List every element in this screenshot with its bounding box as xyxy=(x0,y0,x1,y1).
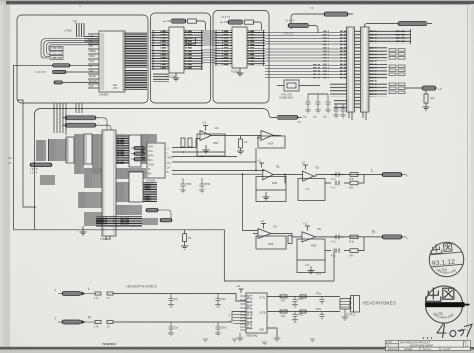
cap CO4 xyxy=(320,312,325,320)
resistor RL1 xyxy=(95,292,101,295)
resistor RR2 xyxy=(107,321,113,324)
wire A1 to A2 xyxy=(216,135,261,137)
pills small right xyxy=(146,209,158,212)
labels above xyxy=(221,17,231,19)
IC U7 xyxy=(84,134,92,164)
oscillator module boxes xyxy=(50,47,63,51)
ground G11 xyxy=(274,338,281,341)
pill P16 L input xyxy=(62,292,81,296)
TOP label xyxy=(73,22,78,24)
headphone jack J1 xyxy=(351,296,360,313)
U11 label xyxy=(146,181,156,183)
resistor RL2 xyxy=(107,292,113,295)
box R-array2 xyxy=(245,20,254,24)
feedback box A5 xyxy=(256,236,286,249)
left scanner band xyxy=(0,0,10,353)
rail down to R channel xyxy=(243,174,259,230)
+12 supply A6 xyxy=(305,226,310,231)
XTAL OSC box X1 xyxy=(284,80,299,91)
U1 left pin stubs xyxy=(88,34,99,88)
tick labels xyxy=(285,21,295,23)
IC U6 xyxy=(66,137,74,163)
comb band mid xyxy=(116,168,146,179)
bus wires box1 to cluster xyxy=(54,103,66,135)
U2 right comb xyxy=(184,30,203,47)
bottom right pin down xyxy=(267,328,277,338)
IC U8 gate array xyxy=(102,130,116,236)
resistor RO1 xyxy=(280,295,287,298)
left margin tiny labels xyxy=(8,158,12,165)
stamp 1 (date stamp 93.1.12) xyxy=(428,241,465,278)
opamp A6 xyxy=(302,232,316,242)
+12 supply U12 xyxy=(239,288,244,294)
U4 left combs xyxy=(330,82,347,97)
+12 supply A4 xyxy=(303,165,308,170)
R label xyxy=(372,230,376,235)
resistor RO3 xyxy=(300,295,306,298)
pill P17 R input xyxy=(62,320,81,324)
comb right of U6 xyxy=(74,134,84,174)
IC U4 xyxy=(347,27,355,112)
R out resistor xyxy=(350,235,358,239)
U12 right wires xyxy=(267,296,340,311)
U12 label xyxy=(246,335,258,338)
feedback box A6 xyxy=(297,239,325,273)
HEADPHONES right label xyxy=(363,300,397,305)
feedback box A1 xyxy=(197,134,225,156)
pill P15 R out xyxy=(382,235,402,239)
+12 supply A1 xyxy=(203,126,208,131)
pill P7 xyxy=(288,24,309,28)
U3 right comb xyxy=(247,30,265,46)
clock loop wires nest xyxy=(41,39,99,59)
pill P13 xyxy=(30,163,52,167)
feedback box A4 xyxy=(298,179,325,201)
ground G4 xyxy=(80,226,87,235)
resistor RO2 xyxy=(280,310,287,313)
U1 right pin comb xyxy=(125,32,147,68)
connector pill P2 xyxy=(53,70,67,73)
input resistors A1 xyxy=(181,138,185,147)
ground G1 xyxy=(173,73,180,81)
+12 supply A5 xyxy=(261,224,266,229)
pill P9 out xyxy=(422,86,436,90)
pill serial P11 xyxy=(65,116,96,120)
U2 left comb xyxy=(152,30,170,47)
tiny label col xyxy=(30,169,38,175)
clock bus wires to top xyxy=(77,23,85,37)
wire bundle box3 to U4 band3 xyxy=(265,66,347,78)
dots above title block xyxy=(423,337,432,338)
wire A4 fb drop xyxy=(284,174,286,183)
tick labels 1357 xyxy=(35,72,47,74)
feedback box A3 xyxy=(256,177,286,202)
IC U12 headphone amp xyxy=(246,293,267,333)
wire R row xyxy=(113,312,246,323)
ground G5 xyxy=(181,246,188,249)
wire long y108.6 xyxy=(35,109,278,230)
labels row xyxy=(283,34,294,36)
resistor R-L8 xyxy=(424,94,428,103)
jack ground xyxy=(342,309,349,320)
resistor RR1 xyxy=(95,321,101,324)
caps cluster C10-C12 xyxy=(306,94,311,110)
module box 1 (CPU) xyxy=(17,15,148,103)
+12 supply A3 xyxy=(259,163,264,168)
U5 right top comb xyxy=(369,29,411,44)
U8 left comb low xyxy=(84,168,102,188)
U2 label xyxy=(167,77,177,79)
ground G6 xyxy=(168,305,174,308)
rail resistor xyxy=(183,234,187,242)
U12 left pins xyxy=(240,296,246,330)
xtal caps small xyxy=(187,38,196,44)
U5 right comb2 xyxy=(369,47,387,61)
redaction bar xyxy=(426,302,465,307)
second row from box A4 xyxy=(325,175,364,184)
wire xtal to U4 xyxy=(277,85,320,87)
left small comb xyxy=(40,175,55,185)
jack switch contacts xyxy=(340,299,350,310)
connector pill P3 xyxy=(54,81,63,84)
U1 label xyxy=(99,85,118,97)
label 7.4 xyxy=(310,8,314,10)
second row from box A6 xyxy=(325,237,364,251)
caps C-row below U4 xyxy=(334,104,339,115)
L out resistor xyxy=(350,173,358,177)
IC U5 xyxy=(361,27,370,112)
jack label xyxy=(346,315,356,317)
cap CL1 xyxy=(169,294,174,305)
wire bundle box2 to box3 xyxy=(202,31,215,45)
feedback box A2 xyxy=(258,136,285,148)
ground under R82k xyxy=(237,151,244,154)
pill serial P12 xyxy=(65,123,96,127)
pill P4 top xyxy=(171,19,186,23)
resistor RO4 xyxy=(300,310,306,313)
pill P8 top right xyxy=(398,22,427,26)
cap CL2 xyxy=(216,294,221,305)
ground in box A6 xyxy=(308,267,315,274)
IC U10 xyxy=(129,172,143,202)
wire bundle box3 to U4 band1 xyxy=(265,33,347,45)
U8 right combs xyxy=(116,134,129,164)
wire A2 fb down to A3 xyxy=(255,148,257,170)
cap CO2 xyxy=(293,312,298,320)
pill P14 L out xyxy=(382,173,402,177)
pill P5 top xyxy=(228,20,243,24)
right margin fold line xyxy=(467,5,469,346)
cap CO3 xyxy=(320,296,325,304)
opamp A3 xyxy=(263,169,273,180)
L label xyxy=(371,168,374,173)
title block xyxy=(386,341,471,352)
stamp2 kanji SHUTSU-ZU (vector) xyxy=(426,288,454,302)
U8 bottom stub xyxy=(106,236,110,240)
opamp A5 xyxy=(258,229,271,239)
top dark band xyxy=(0,0,474,1)
U11 left pills xyxy=(134,147,145,150)
ground G9 xyxy=(215,333,221,336)
U3 left comb xyxy=(215,30,233,46)
L.7MHz label xyxy=(64,31,73,33)
U1 pin name labels xyxy=(89,35,97,88)
wire x23 xyxy=(17,100,36,207)
caps BT81 row xyxy=(181,178,186,190)
ground G7 xyxy=(215,305,221,308)
cap CR1 xyxy=(169,322,174,333)
U3 label xyxy=(231,72,240,74)
DAC out wires xyxy=(172,139,264,175)
ground in box A3 xyxy=(263,192,270,200)
U1 pin number column xyxy=(123,32,126,91)
junction dots xyxy=(182,151,286,175)
module box 3 (RAM) xyxy=(213,11,269,104)
middle comb U4-U5 xyxy=(355,29,361,110)
wire L row xyxy=(113,294,246,302)
pill P10 bus out xyxy=(277,115,298,119)
comb low band xyxy=(116,205,142,215)
ground in box A1 xyxy=(203,145,210,153)
ground G2 xyxy=(237,68,244,76)
opamp A1 xyxy=(200,131,211,141)
U4 U5 bottom stubs xyxy=(349,112,366,120)
RAM comb block upper xyxy=(48,139,66,161)
wire to out connector xyxy=(405,87,422,89)
TM-9000EX footer xyxy=(102,342,116,346)
IC U9 xyxy=(129,135,141,167)
resistor R82k hanging xyxy=(240,136,242,140)
handwritten 4 of 7 xyxy=(437,324,472,338)
right section: pill P6 top xyxy=(324,12,348,16)
ground G3 xyxy=(423,107,430,110)
opamp A2 xyxy=(261,131,273,141)
box R-array xyxy=(188,19,197,23)
resistor array stack xyxy=(389,49,405,94)
wire left feedback xyxy=(14,65,53,230)
opamp A4 xyxy=(303,171,314,181)
wire stub A2 out xyxy=(273,135,277,137)
R out cap xyxy=(331,235,344,239)
IC U2 ROM xyxy=(169,27,184,73)
grounds row bottom center xyxy=(203,339,315,345)
comb right of U10 xyxy=(143,182,157,202)
L out cap C4u7 xyxy=(331,172,344,176)
cap CR2 xyxy=(216,322,221,333)
wire bundle box3 to U4 band2 xyxy=(265,49,347,61)
faint fold mark top xyxy=(79,5,81,8)
ground G10 xyxy=(237,333,244,341)
connector pill P1 xyxy=(53,64,71,67)
U8 label xyxy=(100,239,110,241)
cap CO1 xyxy=(293,296,298,304)
IC U1 CPU xyxy=(99,31,125,92)
IC U3 RAM xyxy=(232,27,247,68)
stamp1 kanji SHUTSU-ZU (vector) xyxy=(430,243,452,254)
comb right of U7 xyxy=(92,134,102,174)
DAC IC U11 xyxy=(147,143,165,178)
long bottom rail xyxy=(14,230,335,281)
resistor mid R xyxy=(288,236,292,244)
ground G8 xyxy=(168,333,174,336)
bottom dark band xyxy=(0,347,474,350)
HEADPHONES title xyxy=(126,285,157,289)
module box 2 (ROM) xyxy=(151,13,211,103)
stamp 2 (redacted stamp) xyxy=(425,286,469,323)
